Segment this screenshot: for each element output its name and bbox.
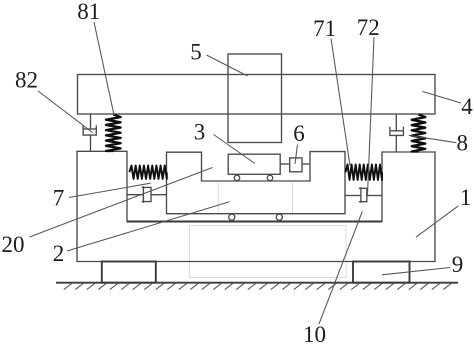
svg-text:8: 8 <box>457 131 469 156</box>
spring 8 (vertical right) <box>412 115 426 152</box>
leader 82 <box>38 91 93 133</box>
leader 8 <box>409 135 457 142</box>
damper 10 cup <box>359 188 367 201</box>
svg-text:6: 6 <box>293 121 305 146</box>
right upper damper rod <box>395 114 397 131</box>
svg-text:5: 5 <box>190 40 202 65</box>
box 3 wheel right <box>267 175 272 180</box>
svg-text:3: 3 <box>194 120 206 145</box>
svg-text:4: 4 <box>461 94 473 119</box>
block 5 <box>228 54 282 143</box>
damper 20 rod left <box>127 194 143 196</box>
beam 4 <box>78 75 436 115</box>
rod between box 3 and box 6 <box>280 163 290 165</box>
carriage 2 outline <box>167 152 346 214</box>
spring 71 (horizontal right) <box>346 165 383 180</box>
damper 20 rod right <box>151 194 167 196</box>
damper 10 rod left <box>345 195 361 197</box>
leader 5 <box>207 55 248 76</box>
spring 81 (vertical left) <box>106 115 121 152</box>
faint hidden rectangle in base <box>190 226 347 278</box>
svg-text:1: 1 <box>460 185 472 210</box>
svg-text:82: 82 <box>15 67 38 92</box>
leader 81 <box>94 22 114 115</box>
damper 82 piston <box>83 128 96 130</box>
spring 7 (horizontal left) <box>129 166 166 179</box>
damper 82 cup <box>83 125 96 135</box>
svg-text:7: 7 <box>53 186 65 211</box>
leader 9 <box>382 268 450 275</box>
right upper damper piston <box>390 130 404 132</box>
frame 1 outline <box>77 151 435 261</box>
left foot 9 <box>102 262 156 283</box>
damper 20 piston <box>142 186 144 203</box>
leader 20 <box>30 168 213 238</box>
leader 3 <box>214 135 255 164</box>
right foot 9 <box>353 262 410 283</box>
leader 71 <box>331 39 350 166</box>
damper 82 rod <box>90 114 92 129</box>
ground line <box>56 282 458 284</box>
box 6 <box>290 158 302 172</box>
leader 72 <box>368 37 375 195</box>
svg-text:20: 20 <box>2 232 25 257</box>
svg-text:71: 71 <box>313 16 336 41</box>
rod between box 6 and carriage wall <box>302 163 310 165</box>
damper 10 rod right <box>367 195 382 197</box>
ground hatching <box>64 283 452 290</box>
svg-text:9: 9 <box>452 252 464 277</box>
damper 20 cup <box>142 187 151 201</box>
right upper damper stem <box>395 135 397 152</box>
leader 2 <box>67 202 230 251</box>
damper 82 stem <box>90 135 92 151</box>
svg-text:72: 72 <box>357 15 380 40</box>
carriage wheel right <box>276 214 282 220</box>
svg-text:10: 10 <box>303 322 326 345</box>
leader 7 <box>69 183 151 197</box>
carriage wheel left <box>229 214 235 220</box>
box 3 wheel left <box>234 175 239 180</box>
leader 10 <box>319 212 362 325</box>
damper 10 piston <box>360 187 362 203</box>
svg-text:81: 81 <box>77 0 100 24</box>
leader 4 <box>423 92 462 104</box>
faint hidden rectangle under deck <box>218 183 292 214</box>
right upper damper cup <box>390 127 404 136</box>
svg-text:2: 2 <box>53 241 65 266</box>
leader 1 <box>416 206 458 237</box>
box 3 <box>228 154 280 174</box>
leader 6 <box>295 145 298 165</box>
frame floor line (darker) <box>127 221 382 223</box>
